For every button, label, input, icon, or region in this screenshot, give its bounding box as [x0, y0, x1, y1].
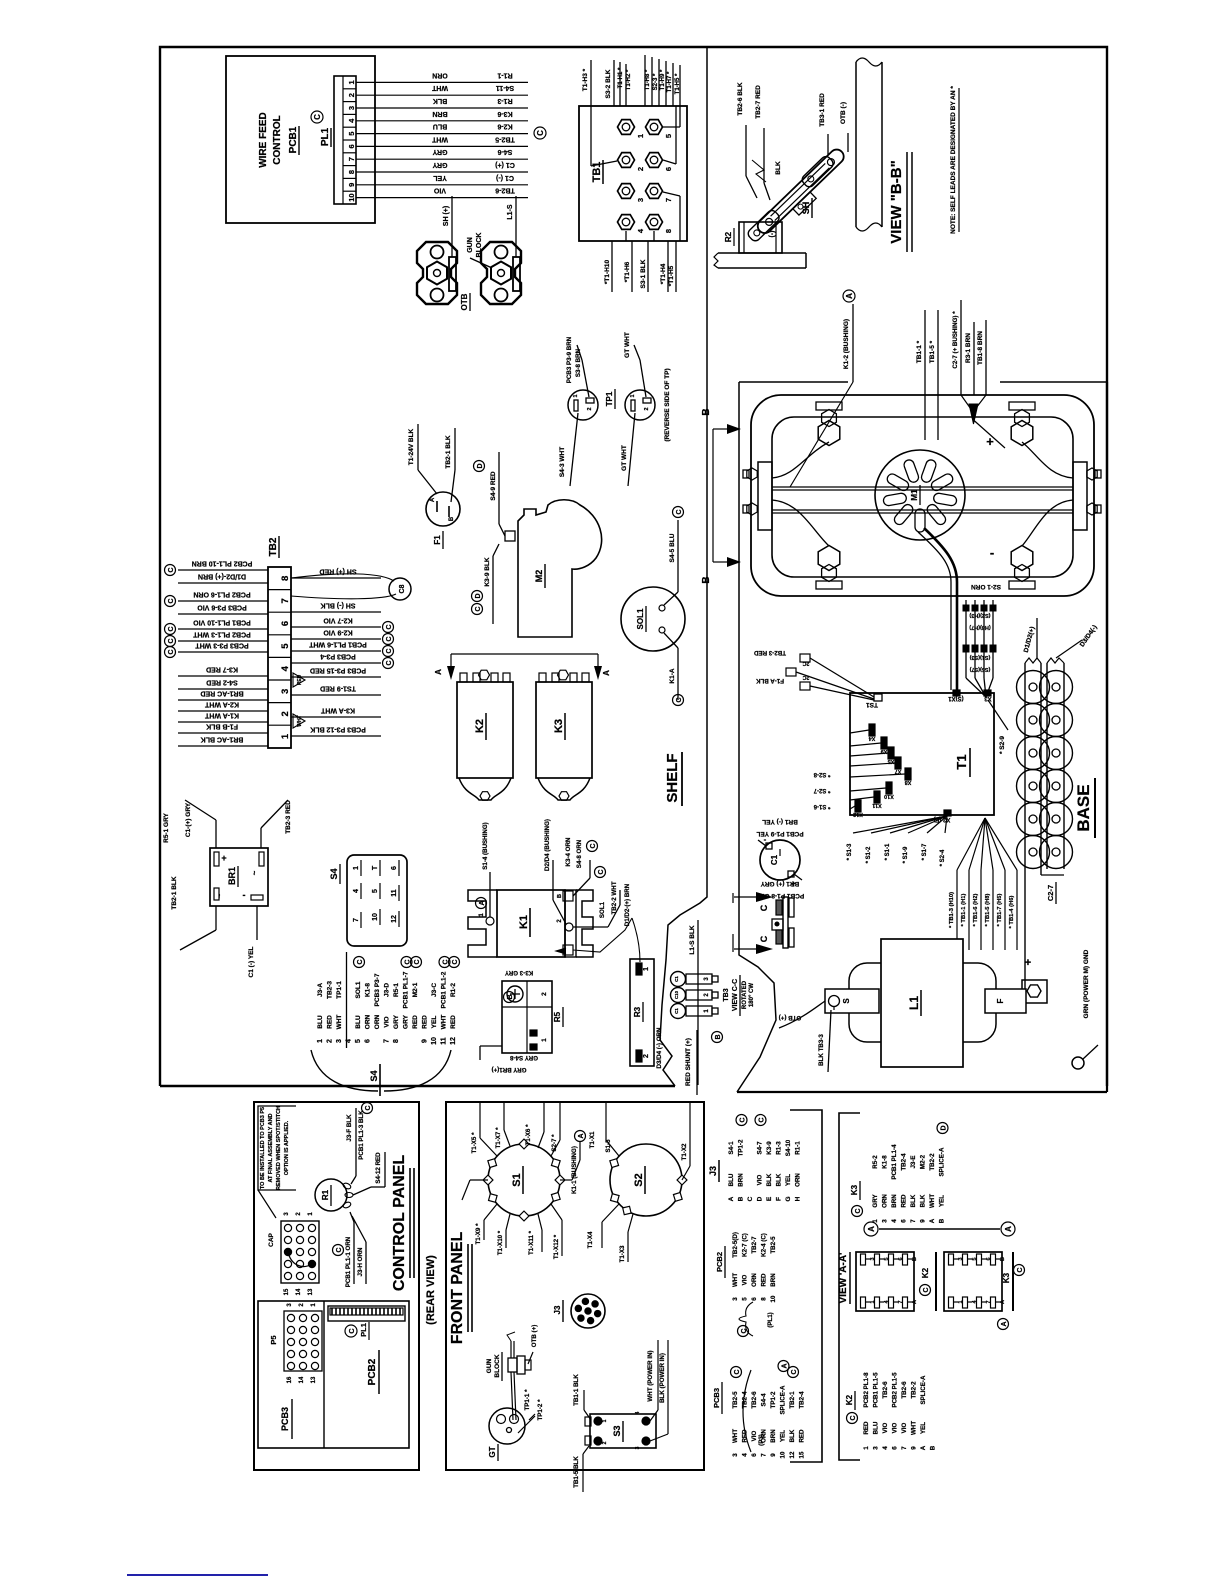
svg-text:D3/D4(-): D3/D4(-)	[1079, 624, 1099, 648]
svg-text:BR1-AC BLK: BR1-AC BLK	[201, 736, 244, 743]
connector S4 block	[347, 855, 407, 946]
svg-text:M1: M1	[910, 489, 919, 501]
svg-text:A: A	[479, 900, 486, 905]
svg-text:S3-8 BRN: S3-8 BRN	[575, 348, 582, 377]
label PL1 and C	[345, 1325, 357, 1337]
svg-text:1: 1	[636, 134, 645, 138]
svg-text:M2-2: M2-2	[920, 1154, 927, 1169]
svg-text:9: 9	[770, 1453, 777, 1457]
svg-text:GRN (POWER M) GND: GRN (POWER M) GND	[1083, 949, 1090, 1018]
svg-text:TB2-4: TB2-4	[799, 1391, 806, 1409]
connector lugs middle of shunt	[793, 192, 817, 215]
svg-text:10: 10	[372, 913, 379, 921]
svg-text:4: 4	[635, 1411, 641, 1414]
contactor K1 heatsink right comb	[576, 890, 593, 957]
svg-text:TB3: TB3	[723, 988, 730, 1001]
svg-text:4: 4	[280, 665, 291, 671]
section line A-A with arrows	[451, 653, 598, 655]
svg-text:9: 9	[422, 1039, 429, 1043]
svg-text:S2-7 *: S2-7 *	[551, 1134, 558, 1152]
svg-text:+: +	[1025, 957, 1031, 969]
svg-text:* S1-3: * S1-3	[847, 843, 853, 860]
C2 capacitor cells	[1017, 671, 1050, 704]
svg-text:J3: J3	[708, 1166, 718, 1176]
svg-text:TB2-6: TB2-6	[901, 1381, 908, 1399]
motor bolt bottom-left	[816, 581, 842, 589]
wire K3-9 BLK to M2	[493, 544, 499, 556]
resistor R3 box	[630, 959, 654, 1066]
svg-text:7: 7	[910, 1219, 917, 1223]
svg-text:VIO: VIO	[892, 1422, 899, 1433]
wire S4-9 RED to M2	[498, 452, 500, 524]
svg-text:1: 1	[479, 913, 485, 917]
svg-text:1: 1	[573, 394, 579, 397]
svg-text:4: 4	[742, 1453, 749, 1457]
svg-text:T1-H2 *: T1-H2 *	[626, 69, 632, 90]
svg-text:RED: RED	[863, 1421, 870, 1435]
svg-text:S4-7: S4-7	[757, 1141, 764, 1155]
cable bar in view B-B	[855, 62, 857, 227]
svg-text:TB3-1 RED: TB3-1 RED	[819, 93, 826, 127]
svg-text:R1: R1	[321, 1189, 330, 1200]
svg-text:C: C	[168, 638, 175, 643]
svg-text:13: 13	[308, 1288, 314, 1295]
svg-text:(S1)(S3): (S1)(S3)	[969, 654, 990, 660]
svg-text:S4-12 RED: S4-12 RED	[375, 1152, 382, 1184]
brace P3 for PCB3 table	[743, 1370, 751, 1452]
svg-text:D3/D4 (-) ORN: D3/D4 (-) ORN	[656, 1027, 663, 1068]
svg-text:L1-S BLK: L1-S BLK	[689, 925, 696, 955]
svg-text:(P3): (P3)	[758, 1434, 765, 1446]
heavy lead M1 to T1	[924, 528, 957, 690]
svg-text:* S1-1: * S1-1	[885, 843, 891, 860]
svg-text:3: 3	[287, 1303, 293, 1307]
svg-text:K1-8: K1-8	[882, 1155, 889, 1169]
svg-text:R1-3: R1-3	[776, 1141, 783, 1155]
svg-text:A: A	[867, 1226, 876, 1232]
K1 terminal strip	[565, 890, 576, 957]
svg-text:2: 2	[643, 1054, 650, 1058]
svg-text:A: A	[578, 1133, 585, 1138]
wire OTB(+) to S	[779, 1001, 825, 1028]
svg-text:T1-X1: T1-X1	[589, 1131, 596, 1148]
svg-text:BLK: BLK	[766, 1173, 773, 1186]
svg-text:R3-1 BRN: R3-1 BRN	[965, 333, 972, 363]
svg-text:A: A	[782, 1363, 789, 1368]
K1 wire to R3 D1/D2	[573, 918, 632, 952]
connector CAP grid	[281, 1221, 319, 1283]
svg-text:BLK TB3-3: BLK TB3-3	[818, 1034, 825, 1066]
svg-text:S4-6: S4-6	[498, 148, 513, 155]
connector P5 grid	[284, 1311, 322, 1371]
svg-text:15: 15	[799, 1451, 806, 1458]
svg-text:A: A	[728, 1196, 735, 1201]
svg-text:* S2-9: * S2-9	[999, 736, 1006, 754]
wire OTB (-)	[847, 133, 849, 152]
svg-text:J3: J3	[553, 1305, 562, 1314]
svg-text:T1-X9 *: T1-X9 *	[475, 1223, 482, 1245]
wiring table bracket left	[790, 1110, 822, 1462]
svg-text:C2-7 (+ BUSHING) *: C2-7 (+ BUSHING) *	[952, 311, 959, 369]
T1 X2(F) terminal	[944, 810, 951, 816]
PCB3 PCB2 outer box	[258, 1301, 409, 1448]
svg-text:5: 5	[355, 1039, 362, 1043]
svg-text:PL1: PL1	[320, 127, 331, 146]
svg-text:11: 11	[441, 1037, 448, 1045]
svg-text:BLU: BLU	[433, 123, 447, 130]
chassis base compartment outline	[739, 381, 848, 383]
svg-text:K3: K3	[553, 719, 565, 733]
svg-text:X8: X8	[905, 779, 912, 785]
svg-text:B: B	[738, 1196, 745, 1201]
svg-text:C: C	[676, 697, 683, 702]
svg-text:10: 10	[770, 1295, 777, 1302]
svg-text:RED: RED	[422, 1015, 429, 1029]
svg-text:TP1: TP1	[605, 391, 614, 406]
svg-text:TB2-3: TB2-3	[327, 981, 334, 999]
svg-text:C1: C1	[674, 976, 679, 982]
svg-text:A: A	[912, 1300, 918, 1304]
svg-text:4: 4	[353, 889, 360, 893]
svg-text:4: 4	[882, 1446, 889, 1450]
svg-text:S3: S3	[612, 1425, 622, 1436]
svg-text:1: 1	[311, 1303, 317, 1307]
svg-text:12: 12	[450, 1037, 457, 1045]
svg-text:K1-8: K1-8	[365, 983, 372, 997]
svg-text:6: 6	[892, 1446, 899, 1450]
svg-text:7: 7	[664, 198, 673, 202]
relay K2 pin view square	[856, 1252, 914, 1311]
TB1 wires to top labels	[590, 60, 592, 106]
svg-text:PCB3 P3-4: PCB3 P3-4	[320, 653, 356, 660]
svg-text:TB2-5: TB2-5	[732, 1391, 739, 1409]
svg-text:VIEW 'A-A': VIEW 'A-A'	[838, 1253, 849, 1304]
switch S1	[488, 1144, 560, 1216]
TS1 wires to terminals	[810, 658, 874, 697]
svg-text:T1-H9 *: T1-H9 *	[660, 69, 666, 90]
svg-text:TO BE INSTALLED TO PCB3 P5: TO BE INSTALLED TO PCB3 P5	[260, 1107, 266, 1189]
svg-text:S4-11: S4-11	[496, 84, 514, 91]
svg-text:C: C	[168, 567, 175, 572]
svg-text:YEL: YEL	[431, 1016, 438, 1029]
svg-text:WHT: WHT	[911, 1421, 918, 1435]
svg-text:A: A	[920, 1445, 927, 1450]
svg-text:2C: 2C	[802, 674, 809, 680]
svg-text:K3-A WHT: K3-A WHT	[320, 707, 355, 714]
svg-text:SOL1: SOL1	[636, 608, 645, 629]
bridge rectifier BR1 box	[210, 848, 268, 906]
svg-text:1: 1	[602, 1419, 608, 1422]
svg-text:TB2-3 RED: TB2-3 RED	[285, 800, 292, 834]
svg-text:TB2-7 RED: TB2-7 RED	[755, 85, 762, 119]
svg-text:P5: P5	[269, 1335, 278, 1344]
svg-text:C: C	[850, 1415, 857, 1420]
svg-text:TB2-2: TB2-2	[929, 1153, 936, 1171]
svg-text:6: 6	[901, 1219, 908, 1223]
svg-text:2: 2	[327, 1039, 334, 1043]
svg-text:C: C	[386, 624, 393, 629]
svg-text:E: E	[766, 1196, 773, 1201]
svg-text:2: 2	[541, 992, 548, 996]
svg-text:2: 2	[299, 1303, 305, 1307]
svg-text:8: 8	[393, 1039, 400, 1043]
zigzag wire mark	[752, 160, 766, 182]
T1 internal tap tabs	[869, 724, 875, 736]
svg-text:C8: C8	[399, 584, 406, 593]
svg-text:6: 6	[751, 1297, 758, 1301]
svg-text:C: C	[452, 959, 459, 964]
svg-text:F: F	[776, 1197, 783, 1201]
CAP jumper wire	[288, 1252, 312, 1267]
svg-text:T1-H3 *: T1-H3 *	[582, 68, 589, 91]
svg-text:PCB1 PL1-2: PCB1 PL1-2	[441, 971, 448, 1008]
slot bar on SH terminal	[449, 257, 456, 291]
svg-text:* TB1-5 (H8): * TB1-5 (H8)	[985, 894, 991, 927]
T1 bottom fan wires	[853, 816, 947, 833]
svg-text:C: C	[475, 606, 482, 611]
svg-text:K3: K3	[850, 1184, 859, 1195]
svg-text:BR1: BR1	[227, 867, 237, 885]
svg-text:TP1-2: TP1-2	[770, 1391, 777, 1408]
svg-text:C: C	[759, 1117, 766, 1122]
svg-text:3: 3	[635, 1446, 641, 1449]
divider between shelf area and chassis views	[660, 47, 707, 1086]
TB1 hex terminals 1-8	[618, 120, 635, 135]
wires TB1-1 TB1-5 into chassis	[924, 310, 926, 440]
svg-text:~: ~	[215, 893, 224, 898]
svg-text:B: B	[507, 994, 514, 999]
svg-text:PCB3 P3-3 WHT: PCB3 P3-3 WHT	[195, 642, 249, 649]
R1 wires lower	[350, 1212, 354, 1222]
svg-text:X11: X11	[872, 802, 881, 808]
svg-text:YEL: YEL	[920, 1422, 927, 1434]
svg-text:TB2-5(D): TB2-5(D)	[732, 1232, 739, 1258]
svg-text:GT WHT: GT WHT	[621, 445, 628, 471]
svg-text:GRY S4-8: GRY S4-8	[510, 1054, 538, 1061]
F1 wires	[418, 470, 437, 494]
capacitor C1	[760, 840, 800, 880]
svg-text:C: C	[168, 649, 175, 654]
svg-text:2: 2	[644, 407, 650, 410]
svg-text:K1: K1	[518, 915, 530, 929]
svg-text:6: 6	[751, 1453, 758, 1457]
svg-text:(S2)(H3): (S2)(H3)	[969, 612, 990, 618]
TP1 wires and labels	[582, 360, 589, 397]
svg-text:6: 6	[365, 1039, 372, 1043]
svg-text:C1: C1	[770, 854, 779, 865]
motor fan M1	[875, 450, 965, 540]
svg-text:* S1-7: * S1-7	[922, 843, 928, 860]
svg-text:TP1-2 *: TP1-2 *	[537, 1399, 544, 1421]
S4 list divider line	[346, 952, 348, 1048]
gun block terminal SH(-)	[417, 242, 457, 304]
svg-text:14: 14	[296, 1288, 302, 1295]
capacitor C8 circle	[389, 578, 411, 600]
svg-text:8: 8	[664, 229, 673, 233]
svg-text:PCB2 PL1-3 WHT: PCB2 PL1-3 WHT	[192, 631, 250, 638]
svg-text:K2: K2	[474, 719, 486, 733]
motor right flange	[1073, 462, 1087, 530]
svg-text:F1-B BLK: F1-B BLK	[206, 723, 238, 730]
svg-text:C: C	[598, 869, 605, 874]
motor tie rods	[772, 486, 1073, 488]
svg-text:8: 8	[761, 1297, 768, 1301]
svg-text:PCB3 P3-7: PCB3 P3-7	[374, 973, 381, 1006]
solenoid SOL1	[621, 587, 685, 651]
svg-text:TP1-2: TP1-2	[738, 1139, 745, 1156]
TB3 bullet terminals	[671, 972, 686, 987]
svg-text:A: A	[602, 670, 611, 676]
wire TB3-1 RED	[827, 134, 829, 155]
svg-text:REMOVED WHEN SPOT/STITCH: REMOVED WHEN SPOT/STITCH	[276, 1106, 282, 1190]
svg-text:SH (-) BLK: SH (-) BLK	[321, 602, 356, 609]
svg-text:K2: K2	[845, 1394, 854, 1405]
svg-text:S3-2 BLK: S3-2 BLK	[605, 69, 612, 98]
svg-text:C: C	[747, 1196, 754, 1201]
svg-text:3: 3	[732, 1297, 739, 1301]
svg-text:*T1-H4: *T1-H4	[660, 263, 667, 284]
svg-text:10: 10	[347, 193, 356, 201]
svg-text:H: H	[795, 1196, 802, 1201]
svg-text:GRY: GRY	[872, 1194, 879, 1208]
svg-text:RED SHUNT (+): RED SHUNT (+)	[685, 1038, 692, 1086]
slot bar on OTB terminal	[513, 257, 520, 291]
svg-text:B: B	[701, 408, 712, 415]
svg-text:GRY: GRY	[432, 148, 447, 155]
svg-text:WHT: WHT	[431, 84, 448, 91]
svg-text:T1-X2: T1-X2	[681, 1143, 688, 1160]
svg-text:M2-1: M2-1	[412, 982, 419, 997]
svg-text:BASE: BASE	[1074, 784, 1093, 831]
svg-text:7: 7	[280, 598, 291, 603]
svg-text:TS1: TS1	[866, 701, 878, 708]
svg-text:SHELF: SHELF	[664, 753, 681, 802]
svg-text:1: 1	[280, 733, 291, 739]
svg-text:PCB3 P3-9 BRN: PCB3 P3-9 BRN	[566, 336, 573, 383]
C2 bottom terminal	[1022, 980, 1047, 1003]
svg-text:T1-X11 *: T1-X11 *	[528, 1230, 535, 1255]
svg-text:K3-3 GRY: K3-3 GRY	[504, 969, 533, 976]
svg-text:* S1-9: * S1-9	[903, 846, 909, 863]
svg-text:A: A	[845, 293, 854, 299]
svg-text:YEL: YEL	[785, 1174, 792, 1186]
svg-text:5: 5	[280, 643, 291, 649]
svg-text:S4: S4	[369, 1070, 379, 1081]
svg-text:BR1 (+) GRY: BR1 (+) GRY	[760, 880, 799, 887]
svg-text:TB2-6: TB2-6	[751, 1391, 758, 1409]
svg-text:K2-A WHT: K2-A WHT	[204, 701, 239, 708]
svg-text:TB2-2: TB2-2	[911, 1381, 918, 1399]
svg-text:J3-E: J3-E	[910, 1155, 917, 1168]
svg-text:B: B	[1000, 1257, 1006, 1261]
S1 terminal tabs	[551, 1193, 560, 1202]
svg-text:TB1-8 BRN: TB1-8 BRN	[977, 331, 984, 365]
svg-text:12: 12	[789, 1451, 796, 1458]
svg-text:C: C	[740, 1117, 747, 1122]
svg-text:* S1-2: * S1-2	[866, 846, 872, 863]
svg-text:T1-H8 *: T1-H8 *	[645, 69, 651, 90]
svg-text:1: 1	[317, 1039, 324, 1043]
svg-text:VIO: VIO	[384, 1016, 391, 1027]
svg-text:2C: 2C	[802, 660, 809, 666]
svg-text:* TB1-6 (H2): * TB1-6 (H2)	[973, 894, 979, 927]
svg-text:R2: R2	[724, 231, 733, 242]
svg-text:TB1-1 *: TB1-1 *	[916, 340, 923, 363]
svg-text:J3-H ORN: J3-H ORN	[357, 1247, 364, 1276]
ground lug GND	[1072, 1057, 1084, 1069]
svg-text:T1-X6 *: T1-X6 *	[525, 1124, 532, 1146]
svg-text:ORN: ORN	[374, 1014, 381, 1029]
svg-text:D1/D2-(+) BRN: D1/D2-(+) BRN	[624, 883, 631, 926]
svg-text:R1-3: R1-3	[497, 97, 512, 104]
svg-text:PCB1 PL1-7: PCB1 PL1-7	[403, 971, 410, 1008]
svg-text:D2/D4 (BUSHING): D2/D4 (BUSHING)	[544, 819, 551, 871]
svg-text:7: 7	[761, 1453, 768, 1457]
svg-text:BLU: BLU	[728, 1173, 735, 1186]
svg-text:3: 3	[284, 1212, 290, 1216]
svg-text:C: C	[590, 843, 597, 848]
svg-text:K3-7 RED: K3-7 RED	[206, 666, 238, 673]
page frame outer border	[160, 47, 1107, 1086]
C2 bank rails	[1024, 663, 1026, 1000]
svg-text:K1-1 (BUSHING): K1-1 (BUSHING)	[571, 1146, 578, 1194]
svg-text:VIO: VIO	[882, 1422, 889, 1433]
svg-text:BLOCK: BLOCK	[494, 1354, 501, 1377]
C1 wire stubs	[758, 840, 766, 846]
svg-text:TB2-5: TB2-5	[770, 1236, 777, 1254]
svg-text:TB2: TB2	[268, 537, 279, 556]
svg-text:TB2-1 BLK: TB2-1 BLK	[445, 435, 452, 469]
svg-text:OTB (+): OTB (+)	[779, 1014, 802, 1021]
svg-text:* TB1-7 (H5): * TB1-7 (H5)	[997, 894, 1003, 927]
svg-text:C: C	[791, 1369, 798, 1374]
svg-text:PCB3 P3-15 RED: PCB3 P3-15 RED	[310, 667, 366, 674]
svg-text:BLU: BLU	[873, 1421, 880, 1434]
svg-text:* S2-4: * S2-4	[940, 849, 946, 866]
svg-text:TB2-4: TB2-4	[901, 1153, 908, 1171]
svg-text:R5-1: R5-1	[393, 983, 400, 997]
svg-text:CAP: CAP	[268, 1232, 275, 1246]
BR1 wires upper	[215, 820, 217, 848]
svg-text:T: T	[372, 865, 379, 870]
wire K1-2 bushing into chassis	[852, 304, 854, 382]
svg-text:VIO: VIO	[901, 1422, 908, 1433]
svg-text:K3-9: K3-9	[766, 1141, 773, 1155]
svg-text:15: 15	[284, 1288, 290, 1295]
svg-text:K2-9 VIO: K2-9 VIO	[323, 629, 353, 636]
svg-text:* S2-7: * S2-7	[813, 787, 830, 793]
svg-text:1: 1	[308, 1212, 314, 1216]
svg-text:B: B	[939, 1218, 946, 1223]
svg-text:ORN: ORN	[432, 71, 448, 78]
svg-text:K2-7 VIO: K2-7 VIO	[323, 617, 353, 624]
svg-text:C1 (-): C1 (-)	[496, 174, 514, 181]
svg-text:F: F	[996, 998, 1005, 1003]
wiring table bracket right	[839, 1113, 860, 1460]
svg-text:5: 5	[372, 889, 379, 893]
svg-text:C: C	[676, 509, 683, 514]
R2 resistor box	[739, 222, 782, 253]
wire L1-S BLK down	[697, 920, 699, 1085]
svg-text:PCB3: PCB3	[712, 1388, 721, 1408]
svg-text:BLU: BLU	[355, 1015, 362, 1029]
svg-text:GT: GT	[488, 1446, 497, 1457]
svg-text:J3-A: J3-A	[317, 983, 324, 997]
svg-text:4: 4	[891, 1219, 898, 1223]
svg-text:(S5)(S7): (S5)(S7)	[969, 666, 990, 672]
svg-text:T1-H7 *: T1-H7 *	[667, 71, 673, 92]
svg-text:S1-4 (BUSHING): S1-4 (BUSHING)	[482, 822, 489, 869]
